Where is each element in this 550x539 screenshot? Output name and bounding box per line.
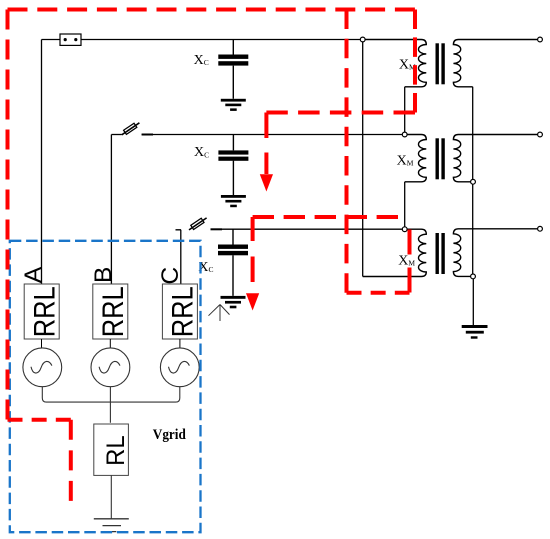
svg-text:XM: XM <box>397 154 414 169</box>
transformer T1 core <box>436 43 445 84</box>
capacitor C1 <box>218 40 248 99</box>
blue boundary box <box>10 241 201 532</box>
wire T2 primary return drop to phase C node <box>404 182 406 229</box>
svg-text:C: C <box>157 267 184 285</box>
ground of RL (thin) <box>94 519 129 532</box>
red right edge down <box>413 10 417 113</box>
svg-text:RRL: RRL <box>28 286 61 337</box>
red horizontal into arrow 1 <box>266 111 415 115</box>
transformer T2 secondary winding <box>453 135 537 182</box>
red arrowhead 1 <box>260 174 273 191</box>
svg-text:A: A <box>20 266 47 283</box>
wire phase C line after switch <box>211 228 405 230</box>
wire phase A horizontal line <box>42 39 363 41</box>
svg-text:XC: XC <box>194 53 209 68</box>
wire T3 primary return riser to phase A node <box>362 40 364 277</box>
wire phase C left stub <box>176 230 182 284</box>
wire T1 primary return drop to phase B node <box>404 87 406 135</box>
wire phase A vertical drop to source A <box>41 40 43 285</box>
svg-text:XC: XC <box>194 145 209 160</box>
switch SW3 (open) phase C <box>189 218 222 230</box>
terminal 1 <box>538 37 543 42</box>
svg-text:XM: XM <box>398 253 415 268</box>
svg-text:RRL: RRL <box>167 286 200 337</box>
switch SW2 (open) phase B <box>122 123 153 135</box>
breaker CB1 (closed) <box>60 34 81 45</box>
resistor box RRL phase C <box>162 284 197 339</box>
ground of C2 <box>221 195 246 207</box>
node N1 (T2 secondary to neutral bus) <box>471 179 476 184</box>
node B (junction phase B / T1 return) <box>402 132 407 137</box>
transformer T3 primary winding <box>363 229 427 276</box>
svg-text:B: B <box>90 267 117 283</box>
transformer T3 core <box>436 233 445 274</box>
capacitor C2 <box>218 135 248 196</box>
wire phase B line after switch <box>142 134 405 136</box>
fault arrow (thin up-arrow at C3 ground) <box>209 305 230 322</box>
wire RRL C to source C <box>179 339 181 348</box>
ground of C1 <box>221 99 246 111</box>
node N2 (T3 secondary to neutral bus) <box>471 274 476 279</box>
AC source B <box>91 348 130 387</box>
wire common bus <box>42 387 180 423</box>
red arrowhead 2 <box>246 293 259 310</box>
wire RRL B to source B <box>109 339 111 348</box>
node C (junction phase C / T2 return) <box>402 227 407 232</box>
transformer T1 primary winding <box>363 40 427 87</box>
wire neutral to ground <box>472 279 474 325</box>
ground of C3 <box>221 296 246 308</box>
wire RL to ground <box>110 475 112 518</box>
transformer T3 secondary winding <box>453 229 537 277</box>
ground of secondary neutral <box>462 325 488 339</box>
red horizontal y=217 <box>253 215 398 219</box>
AC source A <box>23 348 62 387</box>
red loop top edge <box>8 8 416 12</box>
transformer T1 secondary winding <box>453 40 537 87</box>
red loop left edge <box>6 10 10 420</box>
svg-text:RL: RL <box>102 435 130 466</box>
red arrow 2 stem <box>251 217 255 293</box>
node A (junction phase A / T3 return) <box>360 37 365 42</box>
transformer T2 core <box>436 138 445 179</box>
red arrow 1 stem <box>264 113 268 175</box>
resistor box RRL phase A <box>24 284 59 339</box>
capacitor C3 <box>218 229 248 296</box>
red branch bottom horizontal <box>347 291 410 295</box>
resistor box RL <box>94 424 129 475</box>
wire phase B vertical drop to source B <box>110 135 112 285</box>
red branch up to node C <box>408 230 412 293</box>
AC source C <box>160 348 199 387</box>
red loop bottom jog vertical <box>69 420 73 501</box>
terminal 3 <box>538 226 543 231</box>
red loop bottom jog horizontal <box>8 418 71 422</box>
wire phase B left stub <box>111 134 121 136</box>
resistor box RRL phase B <box>93 284 128 339</box>
terminal 2 <box>538 132 543 137</box>
red branch vertical x=346 <box>345 10 349 293</box>
wire RRL A to source A <box>41 339 43 348</box>
wire secondary neutral bus vertical <box>472 87 474 277</box>
svg-text:Vgrid: Vgrid <box>153 427 186 443</box>
transformer T2 primary winding <box>405 135 427 182</box>
svg-text:RRL: RRL <box>97 286 130 337</box>
